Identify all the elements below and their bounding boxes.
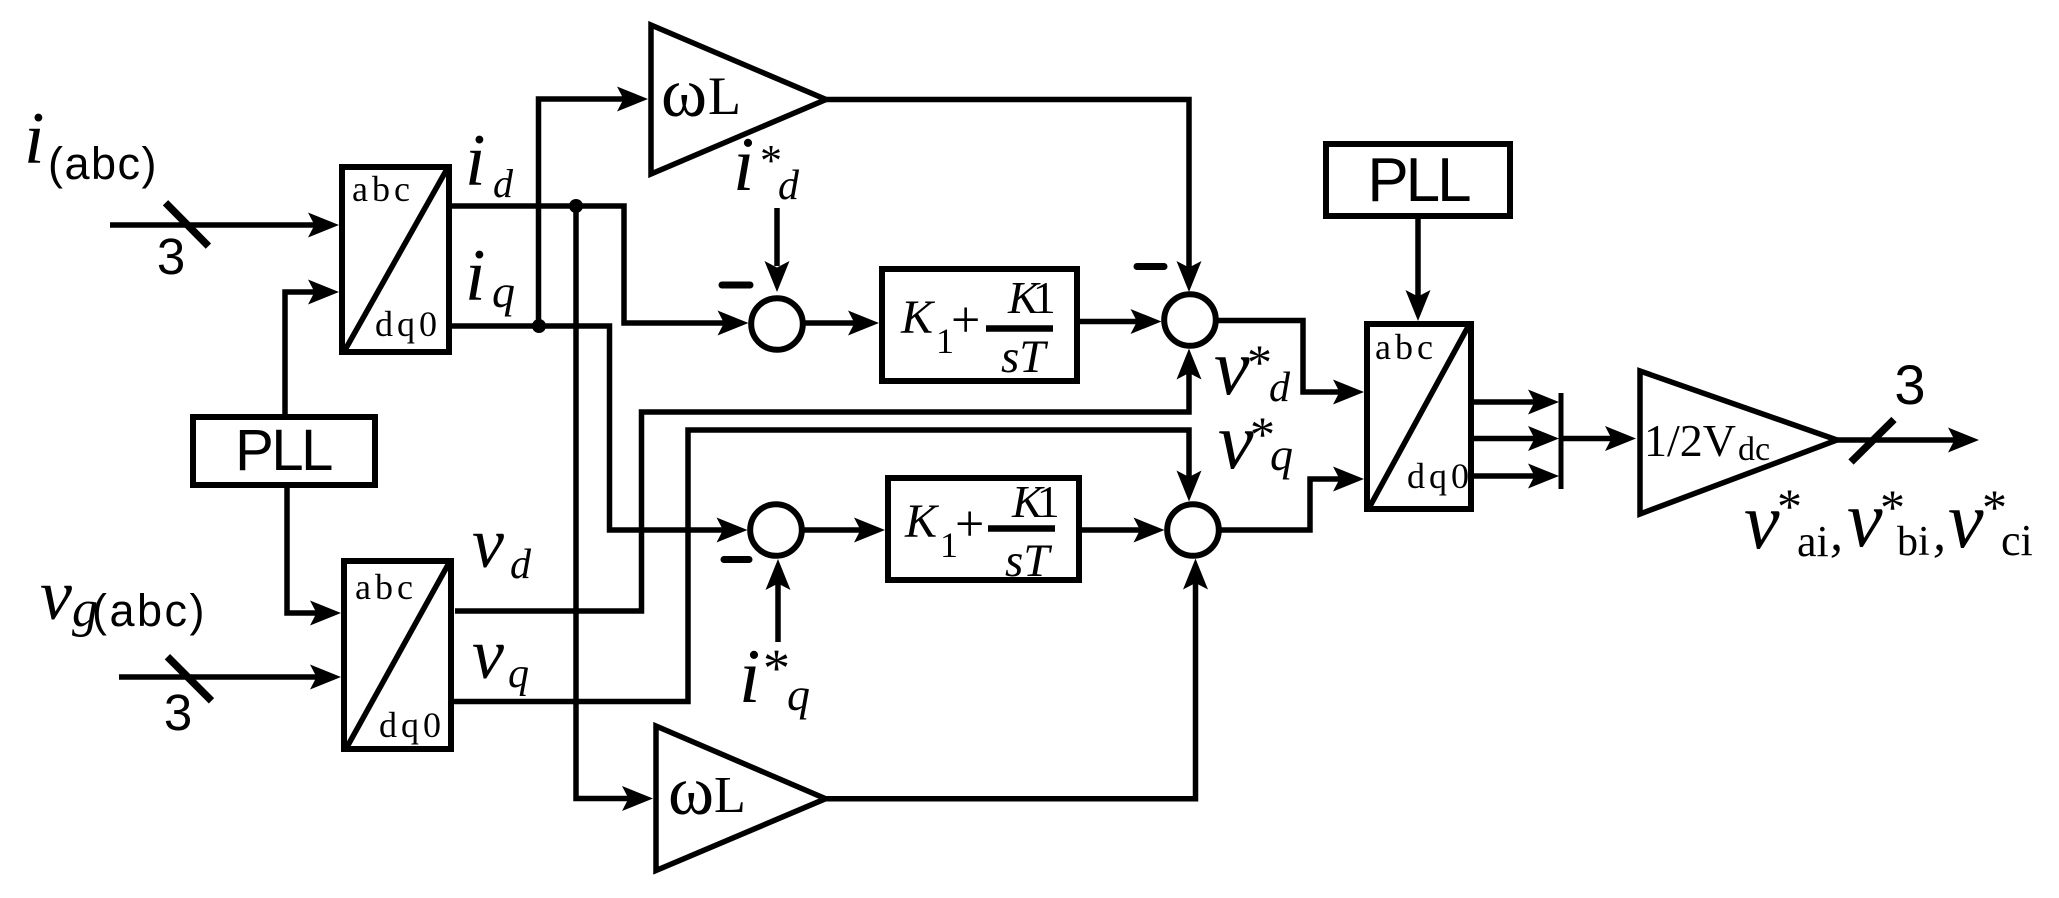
svg-text:,: , [1933,505,1946,562]
svg-text:i: i [465,120,486,202]
svg-text:i: i [24,98,45,180]
svg-text:+: + [955,496,984,553]
svg-text:i: i [739,633,760,719]
svg-text:d: d [493,161,514,206]
svg-text:dq0: dq0 [375,304,441,344]
svg-text:L: L [708,66,741,126]
svg-text:dq0: dq0 [379,705,445,745]
svg-text:ci: ci [2001,516,2033,565]
svg-text:K: K [904,495,940,548]
svg-text:d: d [1269,365,1291,411]
svg-text:ω: ω [668,753,714,830]
svg-text:sT: sT [1005,535,1052,587]
svg-text:q: q [508,651,529,697]
svg-text:PLL: PLL [235,418,332,483]
svg-text:,: , [1830,505,1843,562]
svg-text:1/2V: 1/2V [1644,415,1736,466]
svg-text:K: K [900,291,936,344]
svg-text:v: v [40,555,72,635]
svg-text:i: i [733,121,754,207]
svg-text:v: v [1744,478,1780,566]
svg-text:abc: abc [352,169,414,209]
svg-text:K1: K1 [1007,272,1056,323]
svg-text:dq0: dq0 [1407,456,1473,496]
svg-text:d: d [510,542,532,588]
svg-text:ai: ai [1797,517,1829,566]
svg-text:PLL: PLL [1367,146,1470,215]
svg-text:*: * [763,638,790,698]
svg-text:v: v [472,614,504,694]
svg-text:(abc): (abc) [92,585,207,636]
svg-text:ω: ω [661,55,707,132]
svg-text:sT: sT [1001,331,1048,383]
svg-text:L: L [714,767,746,824]
svg-text:i: i [465,235,486,317]
svg-text:K1: K1 [1011,476,1060,527]
svg-text:v: v [472,503,504,583]
svg-text:abc: abc [1375,327,1437,367]
svg-text:3: 3 [164,684,192,741]
svg-text:v: v [1948,477,1984,565]
svg-text:3: 3 [1894,353,1925,416]
svg-text:v: v [1218,398,1254,486]
svg-text:q: q [1270,429,1293,480]
svg-text:v: v [1847,476,1883,564]
svg-text:(abc): (abc) [48,138,158,189]
svg-text:d: d [778,163,800,209]
svg-text:dc: dc [1738,431,1770,468]
svg-text:q: q [787,669,810,720]
svg-text:abc: abc [355,567,417,607]
svg-text:3: 3 [157,228,185,285]
svg-text:q: q [492,266,515,317]
svg-text:+: + [951,292,980,349]
svg-text:bi: bi [1897,519,1930,565]
